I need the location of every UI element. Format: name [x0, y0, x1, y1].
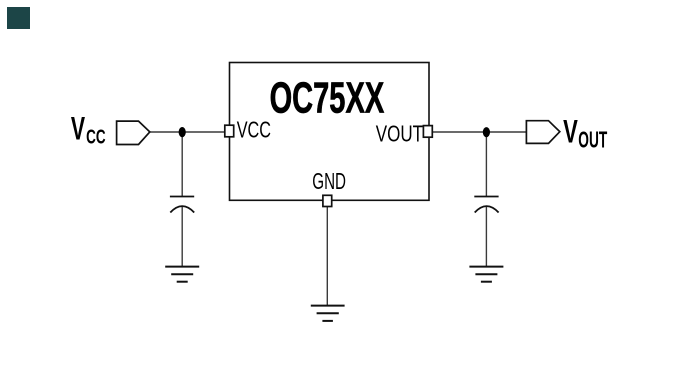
- pin GND (square pad): [323, 195, 332, 206]
- node A (left junction dot): [179, 127, 186, 137]
- corner logo mark: [7, 7, 30, 29]
- capacitor C2 curved plate: [475, 206, 499, 212]
- ground (right): [469, 267, 503, 282]
- ground (left): [165, 267, 199, 282]
- wire: GND pin down to ground: [326, 206, 328, 305]
- wire: left connector to VCC pin: [150, 131, 225, 133]
- svg-text:V: V: [563, 114, 578, 150]
- svg-text:GND: GND: [312, 168, 346, 194]
- svg-text:VOUT: VOUT: [376, 120, 423, 146]
- capacitor C1 top plate: [170, 196, 194, 198]
- wire: right junction down to capacitor C2: [485, 132, 487, 196]
- svg-text:CC: CC: [86, 126, 106, 149]
- svg-text:OC75XX: OC75XX: [270, 75, 385, 123]
- connector/flag VCC input: [117, 121, 150, 144]
- wire: left junction down to capacitor C1: [181, 132, 183, 196]
- ground (center, below GND pin): [311, 306, 345, 321]
- svg-text:OUT: OUT: [578, 127, 607, 153]
- svg-text:V: V: [71, 111, 86, 147]
- wire: capacitor C1 to ground: [181, 207, 183, 267]
- capacitor C2 top plate: [474, 196, 498, 198]
- connector/flag VOUT output: [526, 121, 559, 144]
- svg-text:VCC: VCC: [237, 117, 271, 143]
- op-amp U1 (regulator IC body OC75XX): [230, 63, 430, 201]
- capacitor C1 curved plate: [170, 206, 194, 212]
- pin VCC (square pad): [225, 125, 234, 137]
- node B (right junction dot): [483, 127, 490, 137]
- wire: VOUT pin to right connector: [432, 131, 526, 133]
- wire: capacitor C2 to ground: [485, 207, 487, 267]
- pin VOUT (square pad): [423, 126, 432, 138]
